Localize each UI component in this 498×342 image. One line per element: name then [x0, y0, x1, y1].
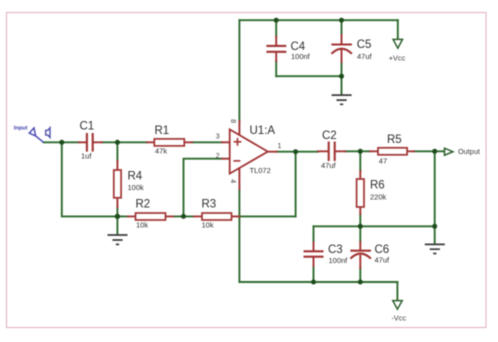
wire output down feedback	[295, 152, 297, 217]
wire lower right rail	[314, 225, 435, 227]
svg-text:C1: C1	[80, 121, 95, 133]
resistor R5 leads	[370, 150, 414, 152]
op-amp minus sign	[233, 160, 240, 162]
wire output node down	[434, 151, 436, 226]
junction R6 bottom	[358, 224, 363, 229]
resistor R6 leads	[359, 171, 361, 214]
wire output node to terminal	[435, 150, 445, 152]
capacitor C3 plates	[304, 251, 324, 256]
wire R3 to feedback corner	[240, 215, 296, 217]
svg-text:R2: R2	[136, 199, 151, 211]
junction C3 bottom	[311, 280, 316, 285]
wire R4 top lead	[116, 142, 118, 161]
svg-text:R1: R1	[155, 125, 170, 137]
svg-text:R3: R3	[202, 199, 217, 211]
wire R6 top lead	[359, 151, 361, 171]
svg-text:Input: Input	[14, 126, 28, 132]
svg-text:1uf: 1uf	[81, 152, 92, 161]
wire -Vcc drop	[396, 282, 398, 300]
svg-text:R5: R5	[387, 134, 402, 146]
svg-text:47: 47	[379, 156, 387, 165]
resistor R2 leads	[128, 215, 173, 217]
wire input to C1	[44, 141, 80, 143]
wire C6 bottom lead	[359, 268, 361, 282]
svg-text:1: 1	[278, 143, 282, 150]
capacitor C2 plates	[329, 142, 335, 162]
resistor R6 body	[357, 179, 364, 207]
junction C5 bottom	[339, 74, 344, 79]
wire ground stub right	[434, 226, 436, 243]
wire C1 to R1	[102, 141, 147, 143]
wire R6 node to R5	[360, 150, 370, 152]
wire ground stub under C5	[341, 76, 343, 94]
op-amp pin 2 stub	[222, 158, 230, 160]
svg-text:R4: R4	[128, 171, 143, 183]
wire output node to C2	[296, 151, 318, 153]
svg-text:10k: 10k	[136, 221, 148, 230]
svg-text:100nf: 100nf	[329, 256, 349, 265]
capacitor C6 leads	[359, 242, 361, 268]
capacitor C4 leads	[275, 37, 277, 62]
wire C5 bottom lead	[341, 62, 343, 76]
junction C2/R6	[358, 149, 363, 154]
junction C1/R1/R4	[115, 140, 120, 145]
junction ground rail left	[115, 214, 120, 219]
junction C5 top	[339, 18, 344, 23]
power -Vcc symbol	[393, 301, 402, 310]
svg-text:47uf: 47uf	[321, 161, 337, 170]
svg-text:8: 8	[229, 119, 236, 123]
svg-text:47uf: 47uf	[375, 256, 391, 265]
wire C2 to R6 node	[345, 150, 360, 152]
svg-text:Output: Output	[458, 147, 480, 156]
capacitor C5 plates	[331, 45, 352, 54]
wire C3 top lead	[313, 226, 315, 242]
svg-text:+Vcc: +Vcc	[389, 53, 406, 62]
wire +Vcc drop	[397, 20, 399, 39]
junction op-amp output	[293, 149, 298, 154]
svg-text:C5: C5	[357, 39, 372, 51]
resistor R4 leads	[116, 161, 118, 207]
op-amp pin 1 stub	[268, 151, 277, 153]
wire input branch down	[62, 142, 128, 216]
op-amp pin 4 stub	[238, 168, 240, 189]
svg-text:4: 4	[229, 179, 236, 183]
wire C4 top lead	[275, 20, 277, 36]
resistor R3 leads	[194, 215, 240, 217]
svg-text:47uf: 47uf	[357, 52, 373, 61]
power +Vcc symbol	[393, 39, 402, 48]
wire C4-C5 bottom rail	[276, 75, 341, 77]
capacitor C2 leads	[318, 150, 345, 152]
resistor R5 body	[378, 148, 407, 155]
wire C5 top lead	[341, 20, 343, 35]
svg-text:-Vcc: -Vcc	[392, 313, 407, 322]
svg-text:TL072: TL072	[250, 166, 271, 175]
junction C4 top	[274, 18, 279, 23]
capacitor C4 plates	[266, 46, 286, 52]
svg-text:C3: C3	[328, 244, 343, 256]
svg-text:100nf: 100nf	[291, 52, 311, 61]
wire pin 8 up to +V rail	[238, 20, 240, 121]
resistor R4 body	[114, 170, 121, 198]
wire pin 4 down	[238, 189, 240, 282]
junction R2/R3/pin2 node A	[181, 214, 186, 219]
ground under R4	[108, 235, 128, 244]
input terminal symbol	[29, 128, 43, 142]
wire R2 to node A	[173, 215, 194, 217]
svg-text:2: 2	[216, 153, 220, 160]
svg-text:47k: 47k	[155, 147, 167, 156]
wire ground stub left	[116, 216, 118, 234]
output terminal symbol	[445, 148, 453, 155]
resistor R1 leads	[147, 141, 192, 143]
input jack symbol	[46, 128, 50, 138]
junction input branch	[59, 140, 64, 145]
wire C4 bottom lead	[275, 61, 277, 76]
svg-text:100k: 100k	[128, 183, 145, 192]
svg-text:3: 3	[216, 133, 220, 140]
wire R5 to output node	[414, 150, 435, 152]
wire R6 bottom lead	[359, 214, 361, 226]
junction C6 bottom	[358, 280, 363, 285]
capacitor C1 plates	[87, 133, 93, 152]
svg-text:U1:A: U1:A	[250, 125, 276, 137]
junction right rail ground	[432, 224, 437, 229]
svg-text:C6: C6	[375, 244, 390, 256]
resistor R2 body	[136, 213, 166, 220]
capacitor C3 leads	[313, 243, 315, 267]
capacitor C6 plates	[350, 251, 371, 259]
svg-text:C2: C2	[322, 130, 337, 142]
op-amp plus sign	[234, 138, 242, 146]
wire C3 bottom lead	[313, 266, 315, 282]
wire R1 to pin 3	[192, 141, 222, 143]
svg-text:10k: 10k	[202, 221, 214, 230]
junction R5/output	[432, 149, 437, 154]
capacitor C5 leads	[341, 35, 343, 62]
ground right side	[425, 244, 445, 253]
svg-text:R6: R6	[370, 180, 385, 192]
ground under C5	[332, 95, 352, 104]
op-amp U1:A body	[230, 129, 268, 173]
op-amp pin 3 stub	[222, 141, 230, 143]
resistor R3 body	[202, 213, 232, 220]
wire pin 2 to R2/R3 node	[184, 159, 223, 217]
wire -V bottom rail	[239, 281, 397, 283]
wire +V top rail	[239, 19, 397, 21]
op-amp pin 8 stub	[238, 121, 240, 135]
wire op-amp output to C2	[277, 151, 296, 153]
capacitor C1 leads	[79, 141, 102, 143]
wire R4 bottom to ground rail	[116, 207, 118, 216]
resistor R1 body	[154, 139, 184, 146]
svg-text:220k: 220k	[370, 193, 387, 202]
wire C6 top lead	[359, 226, 361, 242]
